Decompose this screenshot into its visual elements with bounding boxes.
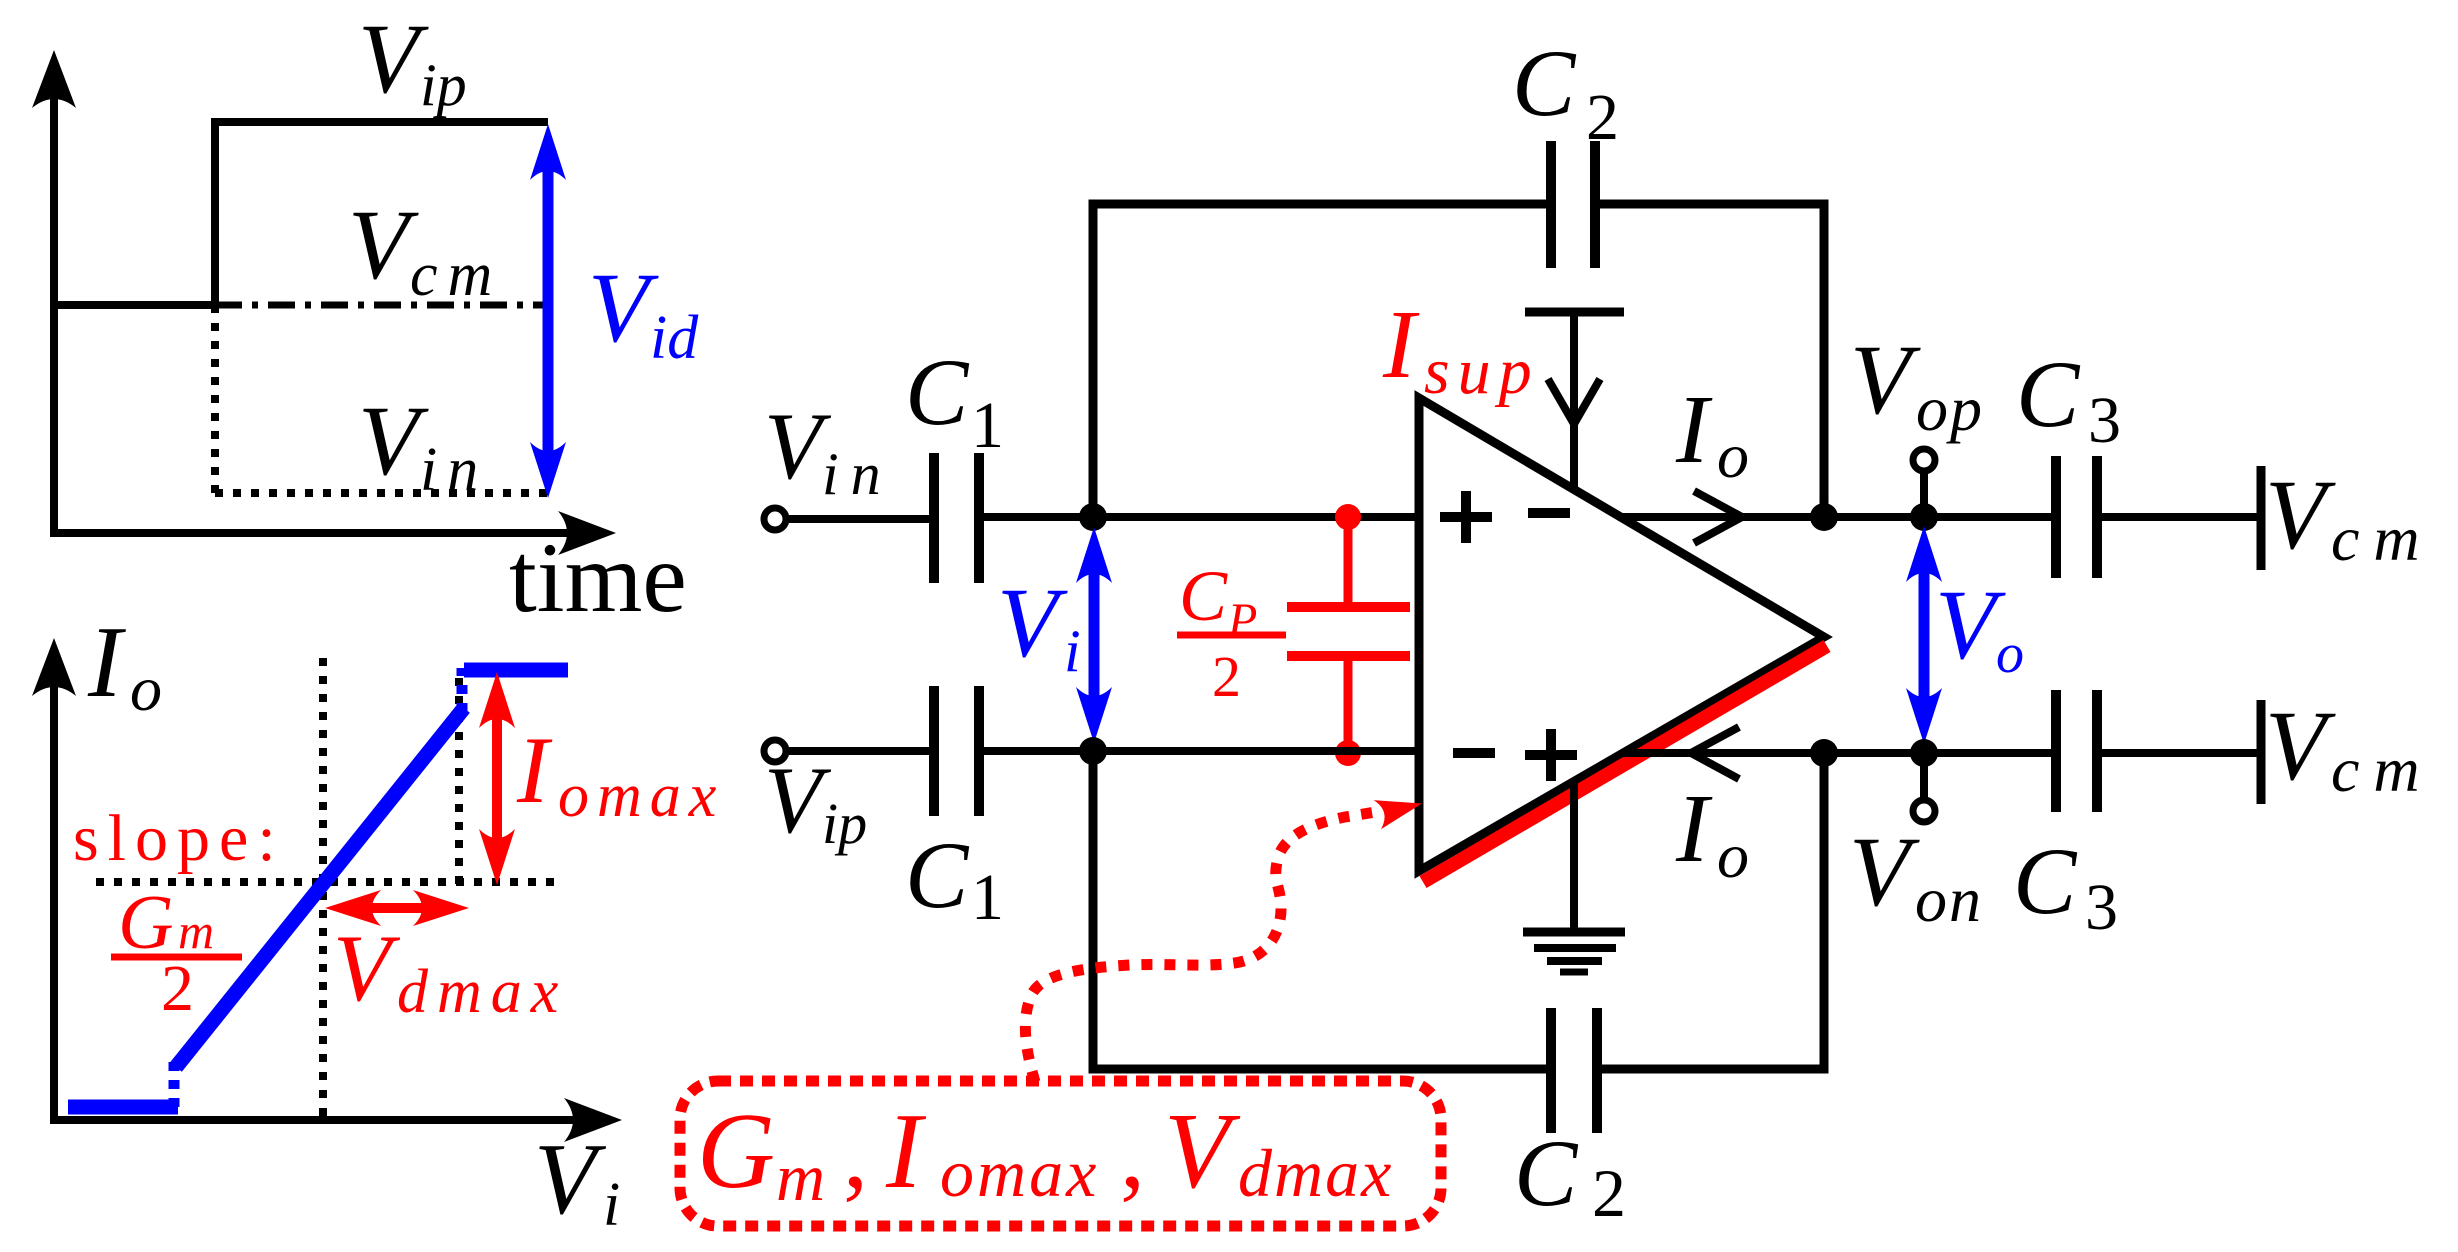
pin minus top xyxy=(1528,508,1570,518)
arrowhead Io top open xyxy=(1694,491,1742,543)
pin minus bottom xyxy=(1453,748,1495,758)
node dotted vertical right xyxy=(455,678,463,886)
svg-text:I: I xyxy=(885,1092,927,1211)
wire blue linear ramp xyxy=(176,708,464,1067)
pin plus bottom xyxy=(1525,729,1577,781)
wire initial Vcm level xyxy=(54,301,219,309)
svg-text:i: i xyxy=(603,1171,620,1239)
node junction bottom input xyxy=(1079,737,1107,765)
svg-text:C: C xyxy=(905,822,970,928)
svg-text:cm: cm xyxy=(410,241,502,309)
svg-text:in: in xyxy=(822,441,893,507)
node output bottom xyxy=(1910,739,1938,767)
wire C3 to Vcm top xyxy=(2097,513,2261,521)
wire blue dotted transition high xyxy=(457,668,468,712)
svg-text:V: V xyxy=(358,3,429,114)
svg-text:I: I xyxy=(87,606,126,719)
svg-text:cm: cm xyxy=(2331,503,2434,574)
svg-text:V: V xyxy=(1164,1092,1241,1211)
node output bottom feedback xyxy=(1810,739,1838,767)
svg-text:I: I xyxy=(1675,775,1713,883)
svg-text:V: V xyxy=(2265,690,2336,801)
wire blue dotted transition low xyxy=(169,1062,180,1107)
svg-text:id: id xyxy=(650,304,699,372)
x-axis xyxy=(50,1116,578,1124)
capacitor C3 bottom xyxy=(2051,690,2061,812)
wire C3 to Vcm bottom xyxy=(2097,749,2261,757)
svg-text:C: C xyxy=(2013,828,2078,934)
callout dotted squiggle xyxy=(1025,810,1388,1082)
svg-text:cm: cm xyxy=(2331,734,2434,805)
svg-text:m: m xyxy=(776,1139,825,1215)
svg-text:C: C xyxy=(1179,556,1228,636)
svg-text:1: 1 xyxy=(971,861,1004,934)
node dotted vertical center xyxy=(319,658,327,1120)
wire feedback up xyxy=(1093,204,1551,517)
terminal Von xyxy=(1920,753,1928,798)
wire dotted step down xyxy=(211,305,219,493)
wire step edge xyxy=(211,118,219,309)
svg-text:V: V xyxy=(358,385,429,496)
svg-text:I: I xyxy=(1382,291,1420,399)
svg-text:V: V xyxy=(333,915,401,1021)
terminal Vcm top xyxy=(2257,466,2266,570)
svg-text:2: 2 xyxy=(1212,644,1241,709)
arrowhead Isup open xyxy=(1548,379,1600,424)
svg-text:I: I xyxy=(1675,376,1713,484)
y-axis xyxy=(50,95,58,535)
capacitor C1 top xyxy=(929,453,939,583)
node Vcm dash-dot level xyxy=(215,302,543,309)
svg-text:ip: ip xyxy=(822,791,867,856)
x-axis xyxy=(50,529,572,537)
wire C2 bottom right xyxy=(1597,753,1824,1069)
svg-text:op: op xyxy=(1916,373,1984,444)
wire blue transfer curve low saturation xyxy=(68,1100,178,1115)
wire C1 to opamp minus xyxy=(979,747,1419,755)
callout dotted box xyxy=(680,1081,1441,1226)
svg-text:time: time xyxy=(509,522,687,633)
svg-text:C: C xyxy=(2016,341,2081,447)
ground xyxy=(1570,780,1578,932)
svg-text:V: V xyxy=(348,189,419,300)
svg-text:V: V xyxy=(1850,324,1921,435)
wire blue high saturation xyxy=(464,663,568,678)
arrow Vdmax xyxy=(355,903,438,913)
svg-text:2: 2 xyxy=(1586,81,1619,154)
svg-text:m: m xyxy=(178,903,214,959)
node junction top input xyxy=(1079,503,1107,531)
svg-text:o: o xyxy=(1717,820,1749,891)
wire Vip to C1 xyxy=(787,747,934,755)
svg-text:V: V xyxy=(534,1123,607,1236)
wire Vin to C1 xyxy=(787,515,934,523)
svg-text:i: i xyxy=(1064,618,1081,684)
current source Isup bar xyxy=(1525,308,1624,317)
svg-text:2: 2 xyxy=(161,952,194,1025)
svg-text:1: 1 xyxy=(971,389,1004,462)
svg-text:,: , xyxy=(843,1098,868,1209)
svg-text:on: on xyxy=(1915,864,1983,935)
wire output top xyxy=(1618,513,2056,521)
svg-text:sup: sup xyxy=(1424,335,1540,408)
capacitor C3 top xyxy=(2051,456,2061,578)
wire Vip level xyxy=(215,118,548,126)
x-axis arrowhead xyxy=(558,511,616,555)
svg-text:o: o xyxy=(130,653,162,724)
svg-text:in: in xyxy=(420,436,488,504)
capacitor C1 bottom xyxy=(929,686,939,816)
y-axis arrowhead xyxy=(32,50,76,108)
svg-text:V: V xyxy=(997,567,1068,678)
op-amp red highlighted edge xyxy=(1423,646,1827,882)
svg-text:G: G xyxy=(697,1092,775,1211)
svg-text:V: V xyxy=(2265,459,2336,570)
node output top xyxy=(1910,503,1938,531)
svg-text:3: 3 xyxy=(2088,384,2121,457)
arrow Vid xyxy=(543,160,554,460)
capacitor C2 bottom xyxy=(1546,1008,1556,1133)
svg-text:o: o xyxy=(1717,420,1749,491)
node output top feedback xyxy=(1810,503,1838,531)
svg-text:omax: omax xyxy=(558,762,724,830)
wire output bottom xyxy=(1621,749,2056,757)
svg-text:C: C xyxy=(1514,1120,1579,1226)
node Vin dotted level xyxy=(215,489,548,497)
arrowhead Io bottom open xyxy=(1691,727,1739,779)
svg-text:dmax: dmax xyxy=(397,958,567,1026)
wire feedback down left xyxy=(1093,751,1551,1069)
svg-text:V: V xyxy=(1849,816,1920,927)
svg-text:V: V xyxy=(588,252,659,363)
svg-text:,: , xyxy=(1120,1098,1145,1209)
op-amp U1 xyxy=(1419,398,1824,871)
pin plus top xyxy=(1440,491,1492,543)
svg-text:I: I xyxy=(516,717,553,823)
y-axis xyxy=(50,680,58,1120)
svg-text:P: P xyxy=(1227,594,1257,647)
terminal Vin xyxy=(764,508,786,530)
capacitor CP/2 red xyxy=(1335,504,1361,530)
svg-text:dmax: dmax xyxy=(1238,1135,1393,1211)
wire Isup down xyxy=(1570,312,1578,488)
callout arrowhead xyxy=(1374,789,1426,829)
svg-text:slope:: slope: xyxy=(73,802,285,875)
node dotted horizontal xyxy=(96,878,555,886)
terminal Vcm bottom xyxy=(2257,700,2266,804)
svg-text:2: 2 xyxy=(1592,1155,1626,1231)
arrow Vo blue xyxy=(1919,558,1930,712)
arrow Vi blue xyxy=(1089,560,1100,710)
svg-text:o: o xyxy=(1996,623,2024,685)
terminal Vip xyxy=(764,740,786,762)
wire C2 to right xyxy=(1595,204,1824,517)
svg-text:omax: omax xyxy=(940,1135,1099,1211)
wire C1 to opamp plus xyxy=(979,513,1419,521)
svg-text:3: 3 xyxy=(2085,871,2118,944)
terminal Vop xyxy=(1920,472,1928,517)
svg-text:C: C xyxy=(1512,30,1577,136)
arrow Iomax xyxy=(492,706,502,850)
capacitor C2 top xyxy=(1546,141,1556,268)
svg-text:ip: ip xyxy=(420,52,467,118)
svg-text:C: C xyxy=(905,339,970,445)
